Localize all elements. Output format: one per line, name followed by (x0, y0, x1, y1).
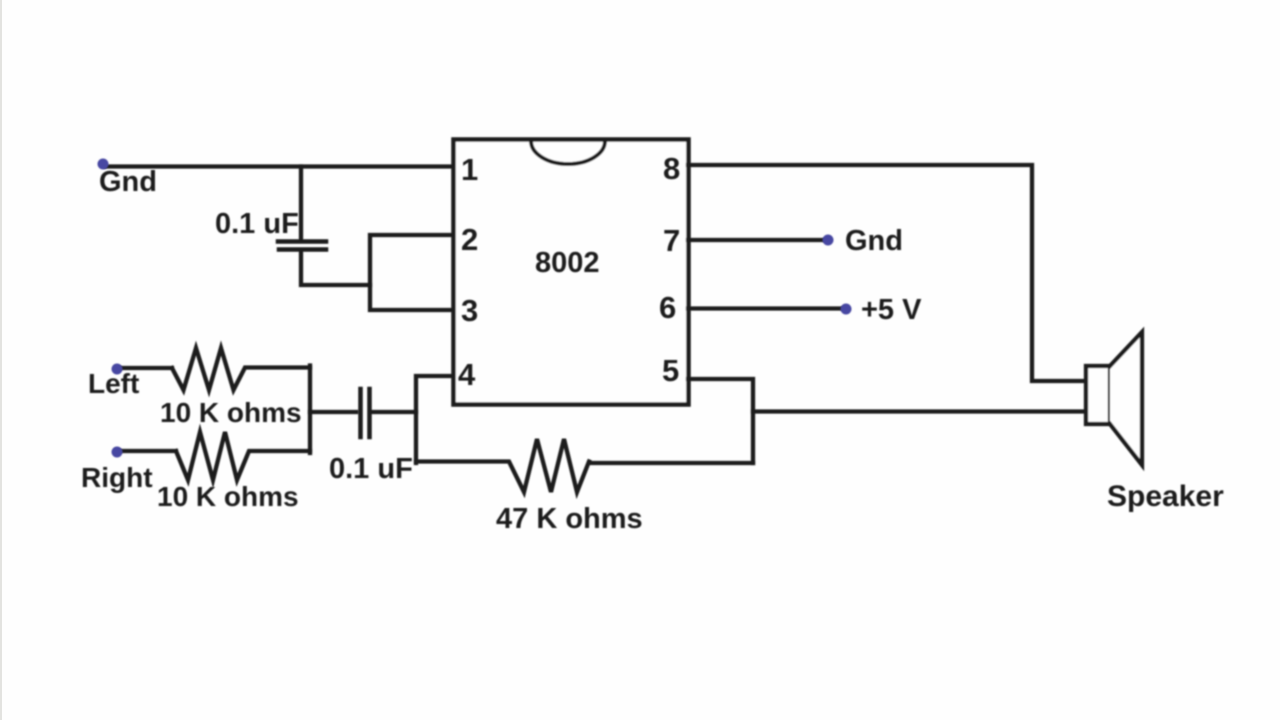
wire pin 8 to speaker top (688, 165, 1086, 381)
speaker cone (1110, 332, 1142, 465)
node Gnd (pin 1, top-left) dot (98, 159, 109, 170)
svg-text:5: 5 (662, 353, 679, 388)
svg-text:4: 4 (458, 357, 476, 392)
svg-text:0.1 uF: 0.1 uF (329, 453, 413, 485)
svg-text:8002: 8002 (535, 247, 600, 279)
svg-text:Right: Right (81, 462, 153, 493)
wire pin 2 loop to pin 3 (370, 235, 453, 310)
capacitor C2 0.1uF (coupling) plates (361, 389, 370, 437)
wire junction to speaker bottom (753, 409, 1086, 413)
capacitor C1 0.1uF (bypass) plates (278, 242, 326, 250)
svg-text:1: 1 (461, 152, 478, 187)
svg-text:6: 6 (659, 290, 676, 325)
svg-text:Left: Left (88, 368, 139, 399)
wire Left input (117, 366, 172, 370)
svg-text:Gnd: Gnd (99, 166, 157, 198)
svg-text:10 K ohms: 10 K ohms (157, 481, 299, 512)
svg-text:3: 3 (461, 293, 478, 328)
svg-text:Gnd: Gnd (845, 225, 903, 257)
wire input junction vertical (308, 366, 312, 454)
speaker driver box (1086, 366, 1110, 424)
svg-text:47 K ohms: 47 K ohms (496, 503, 643, 535)
resistor R2 10 K ohms (right) zigzag (176, 432, 310, 480)
svg-text:+5 V: +5 V (861, 294, 922, 326)
wire capacitor C2 output lead (371, 410, 416, 414)
wire Right input (117, 449, 176, 453)
node +5V (pin 6) dot (841, 304, 852, 315)
node Gnd (pin 7) dot (823, 235, 834, 246)
node Left input dot (112, 364, 123, 375)
wire pin 1 to Gnd node (106, 164, 453, 168)
wire capacitor C1 bottom lead (301, 251, 370, 285)
svg-text:Speaker: Speaker (1107, 480, 1224, 513)
svg-text:8: 8 (663, 151, 680, 186)
svg-text:2: 2 (461, 222, 478, 257)
IC pin-1 notch (531, 141, 605, 164)
wire pin 7 to Gnd node (688, 238, 826, 242)
wire capacitor C1 top lead (299, 167, 303, 241)
resistor R3 47 K ohms zigzag (416, 439, 589, 492)
op-amp U1 8002 IC body (454, 140, 689, 405)
wire capacitor C2 input lead (310, 410, 356, 414)
node Right input dot (112, 447, 123, 458)
svg-text:0.1 uF: 0.1 uF (215, 208, 299, 240)
resistor R1 10 K ohms (left) zigzag (172, 348, 310, 390)
svg-text:10 K ohms: 10 K ohms (160, 397, 302, 428)
wire pin 4 branch (416, 376, 453, 463)
wire pin 5 to feedback junction (688, 379, 753, 463)
wire pin 6 to +5V node (688, 306, 844, 310)
wire feedback to 47K resistor (589, 461, 753, 465)
video frame left-edge artifact (0, 0, 2, 720)
svg-text:7: 7 (663, 223, 680, 258)
